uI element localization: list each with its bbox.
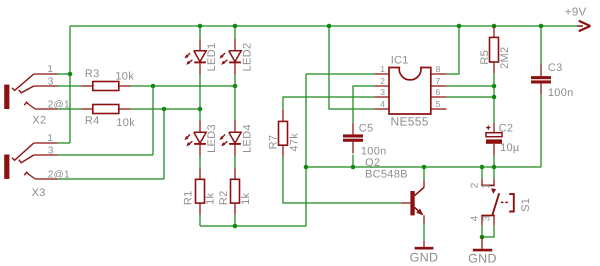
label R7 name	[268, 135, 280, 150]
label IC1 pin number 1	[380, 64, 385, 74]
wire LED3 cathode to R1	[199, 156, 201, 168]
svg-text:LED4: LED4	[241, 124, 253, 153]
label IC1 pin number 3	[380, 87, 385, 97]
wire X3 pin2 horizontal	[58, 178, 165, 180]
IC1 pin 3	[374, 96, 389, 98]
svg-text:LED1: LED1	[206, 43, 218, 72]
wire vertical x=153 to X3 pin3	[152, 86, 154, 155]
junction +9V rail / LED2 column	[233, 24, 238, 29]
wire R7 bottom to Q2 base	[283, 157, 401, 203]
wire IC1 pin3 to R7	[283, 97, 374, 110]
svg-text:5: 5	[436, 99, 441, 109]
svg-text:Q2: Q2	[365, 157, 380, 169]
label IC1 pin number 6	[436, 87, 441, 97]
svg-text:1: 1	[47, 64, 53, 75]
label IC1 name	[391, 54, 409, 66]
resistor R3	[81, 82, 130, 91]
svg-text:10µ: 10µ	[500, 142, 520, 154]
switch S1	[481, 179, 514, 226]
junction rail / C3 column	[539, 24, 544, 29]
label S1 pin 4	[469, 215, 480, 221]
label R3 name	[85, 68, 100, 80]
ground GND at Q2 emitter	[415, 241, 434, 248]
LED LED4	[219, 120, 241, 156]
wire C3 column from rail	[540, 26, 542, 65]
svg-text:IC1: IC1	[391, 54, 409, 66]
wire X2 pin2 to R4	[58, 108, 82, 110]
junction rail / R5 column	[492, 24, 497, 29]
junction C2 / mid net / S1 pin1	[492, 165, 497, 170]
wire bottom rail R1-R2	[200, 225, 306, 227]
junction node R3 net at x=153	[151, 84, 156, 89]
svg-text:X2: X2	[32, 114, 46, 126]
label R1 name	[183, 190, 195, 205]
IC1 pin 5	[431, 108, 447, 110]
label C5 value 100n	[361, 146, 387, 158]
svg-text:R5: R5	[479, 50, 491, 65]
junction R3 net / LED2 column	[233, 84, 238, 89]
label X3 pin 2@1	[48, 170, 70, 181]
junction R4 net at x=164	[162, 107, 167, 112]
svg-text:2: 2	[380, 76, 385, 86]
svg-text:C5: C5	[359, 123, 374, 135]
wire IC1 pin7 to R5 column	[447, 85, 495, 87]
wire IC1 pin8 to rail	[447, 26, 460, 74]
junction R4 net / LED1 column	[198, 107, 203, 112]
svg-text:BC548B: BC548B	[365, 169, 408, 181]
svg-text:LED3: LED3	[206, 124, 218, 153]
label R2 name	[218, 190, 230, 205]
wire Q2 emitter to GND	[423, 224, 425, 241]
svg-text:1k: 1k	[240, 192, 252, 204]
connector X3 jack	[4, 143, 57, 179]
wire LED2 anode from rail	[234, 26, 236, 39]
wire S1 pins 4-3 join	[482, 226, 494, 237]
resistor R5	[490, 26, 499, 73]
capacitor C3	[531, 65, 551, 96]
svg-text:6: 6	[436, 87, 441, 97]
junction C5 / mid net	[351, 165, 356, 170]
wire C2 bottom to mid net	[493, 156, 495, 167]
svg-text:1: 1	[481, 183, 492, 189]
junction x=306 / mid net	[304, 165, 309, 170]
svg-text:C2: C2	[499, 123, 514, 135]
label X2 name	[32, 114, 46, 126]
label X3 pin 3	[48, 145, 54, 156]
wire IC1 pin6 to R5 column	[447, 96, 495, 98]
svg-text:GND: GND	[410, 250, 439, 264]
IC1 pin 4	[374, 108, 389, 110]
ground GND at S1	[473, 237, 492, 250]
svg-text:2@1: 2@1	[48, 100, 70, 111]
wire LED2 cathode to LED4	[234, 75, 236, 121]
label IC1 pin number 4	[380, 99, 385, 109]
wire +9V rail	[70, 25, 577, 27]
svg-text:R7: R7	[268, 135, 280, 150]
label IC1 value NE555	[391, 115, 429, 129]
label C3 name	[548, 62, 563, 74]
junction bottom rail / R2	[233, 224, 238, 229]
label S1 name	[520, 198, 532, 212]
wire IC1 pin1 to x=306	[306, 73, 374, 75]
label C3 value 100n	[548, 87, 574, 99]
svg-text:10k: 10k	[116, 117, 135, 129]
wire X3 pin1 horizontal	[58, 142, 71, 144]
wire S1 pin2 drop	[481, 167, 483, 179]
IC1 pin 8	[431, 73, 447, 75]
svg-text:LED2: LED2	[241, 43, 253, 72]
label LED2	[241, 43, 253, 72]
svg-text:100n: 100n	[548, 87, 574, 99]
svg-text:NE555: NE555	[391, 115, 429, 129]
label IC1 pin number 7	[436, 76, 441, 86]
wire IC1 pin4 to rail	[329, 26, 374, 109]
label IC1 pin number 8	[436, 64, 441, 74]
label LED4	[241, 124, 253, 153]
svg-text:2@1: 2@1	[48, 170, 70, 181]
wire R5 bottom to C2	[493, 73, 495, 123]
junction mid net / S1 pin2	[480, 165, 485, 170]
svg-text:3: 3	[380, 87, 385, 97]
wire R1 bottom to rail	[199, 215, 201, 226]
wire R2 bottom to rail	[234, 215, 236, 226]
resistor R7	[279, 110, 288, 157]
svg-text:3: 3	[48, 145, 54, 156]
IC1 pin 2	[374, 85, 389, 87]
IC1 pin 1	[374, 73, 389, 75]
svg-text:R4: R4	[85, 115, 100, 127]
wire C5 bottom to mid net	[352, 155, 354, 167]
svg-text:3: 3	[48, 77, 54, 88]
label X3 name	[32, 187, 46, 199]
junction mid net / Q2 collector	[422, 165, 427, 170]
label X2 pin 1	[47, 64, 53, 75]
label R5 value 2M2	[499, 47, 511, 69]
label X2 pin 3	[48, 77, 54, 88]
label X3 pin 1	[47, 133, 53, 144]
transistor Q2 BC548B	[401, 181, 424, 224]
svg-text:1k: 1k	[205, 192, 217, 204]
wire C3 bottom to mid net	[540, 95, 542, 167]
LED LED2	[219, 39, 241, 75]
junction rail / pin4 riser	[327, 24, 332, 29]
label S1 pin 1	[481, 183, 492, 189]
label R7 value 47k	[289, 133, 301, 152]
label +9V	[565, 6, 587, 18]
junction rail / pin8 riser	[457, 24, 462, 29]
svg-text:GND: GND	[468, 252, 497, 266]
resistor R2	[231, 168, 240, 215]
wire S1 pin1 drop	[493, 167, 495, 179]
svg-text:1: 1	[47, 133, 53, 144]
label R4 value 10k	[116, 117, 135, 129]
junction S1 ground node	[480, 235, 485, 240]
svg-text:4: 4	[380, 99, 385, 109]
svg-text:10k: 10k	[115, 70, 134, 82]
svg-text:47k: 47k	[289, 133, 301, 152]
wire left vertical x=70	[69, 26, 71, 143]
resistor R4	[81, 105, 130, 114]
connector X2 jack	[4, 74, 57, 109]
svg-text:+9V: +9V	[565, 6, 587, 18]
wire R3 to LED2 column	[131, 85, 236, 87]
svg-text:1: 1	[380, 64, 385, 74]
LED LED3	[184, 120, 206, 156]
svg-text:C3: C3	[548, 62, 563, 74]
wire Q2 collector	[423, 167, 425, 181]
svg-text:X3: X3	[32, 187, 46, 199]
LED LED1	[184, 39, 206, 75]
svg-text:R1: R1	[183, 190, 195, 205]
label LED1	[206, 43, 218, 72]
op-amp timer IC1 NE555 box	[389, 68, 431, 115]
capacitor C2 polarized	[486, 123, 502, 156]
label LED3	[206, 124, 218, 153]
wire LED4 cathode to R2	[234, 156, 236, 168]
junction R5 column / pin7	[492, 84, 497, 89]
wire X2 pin1 to vertical	[58, 73, 71, 75]
label S1 pin 2	[469, 182, 480, 188]
junction X2 pin1 / vertical	[68, 72, 73, 77]
svg-text:7: 7	[436, 76, 441, 86]
IC1 pin 6	[431, 96, 447, 98]
junction R5 column / pin6	[492, 95, 497, 100]
label IC1 pin number 2	[380, 76, 385, 86]
wire R4 to LED1 column	[131, 108, 201, 110]
svg-text:S1: S1	[520, 198, 532, 212]
wire vertical x=306 pin1 net	[305, 74, 307, 226]
label X2 pin 2@1	[48, 100, 70, 111]
label IC1 pin number 5	[436, 99, 441, 109]
svg-text:3: 3	[482, 215, 493, 221]
label R3 value 10k	[115, 70, 134, 82]
label R4 name	[85, 115, 100, 127]
wire X2 pin3 to R3	[58, 85, 82, 87]
label S1 pin 3	[482, 215, 493, 221]
svg-text:2M2: 2M2	[499, 47, 511, 69]
label Q2 name	[365, 157, 380, 169]
label R2 value 1k	[240, 192, 252, 204]
label GND at S1	[468, 252, 497, 266]
svg-text:R2: R2	[218, 190, 230, 205]
wire LED1 cathode to LED3	[199, 75, 201, 121]
label C2 value 10u	[500, 142, 520, 154]
label R1 value 1k	[205, 192, 217, 204]
+9V supply arrow	[577, 21, 590, 31]
svg-text:R3: R3	[85, 68, 100, 80]
svg-text:4: 4	[469, 215, 480, 221]
label C5 name	[359, 123, 374, 135]
wire LED1 anode from rail	[199, 26, 201, 39]
label C2 name	[499, 123, 514, 135]
wire mid net horizontal	[306, 166, 541, 168]
IC1 pin 7	[431, 85, 447, 87]
label R5 name	[479, 50, 491, 65]
junction +9V rail / LED1 column	[198, 24, 203, 29]
svg-text:8: 8	[436, 64, 441, 74]
svg-text:2: 2	[469, 182, 480, 188]
svg-text:100n: 100n	[361, 146, 387, 158]
label GND at Q2	[410, 250, 439, 264]
wire X3 pin3 horizontal	[58, 154, 154, 156]
wire vertical x=164 to X3 pin2	[163, 109, 165, 179]
capacitor C5	[343, 123, 363, 154]
label Q2 value BC548B	[365, 169, 408, 181]
wire IC1 pin2 to C5	[353, 86, 374, 123]
resistor R1	[196, 168, 205, 215]
